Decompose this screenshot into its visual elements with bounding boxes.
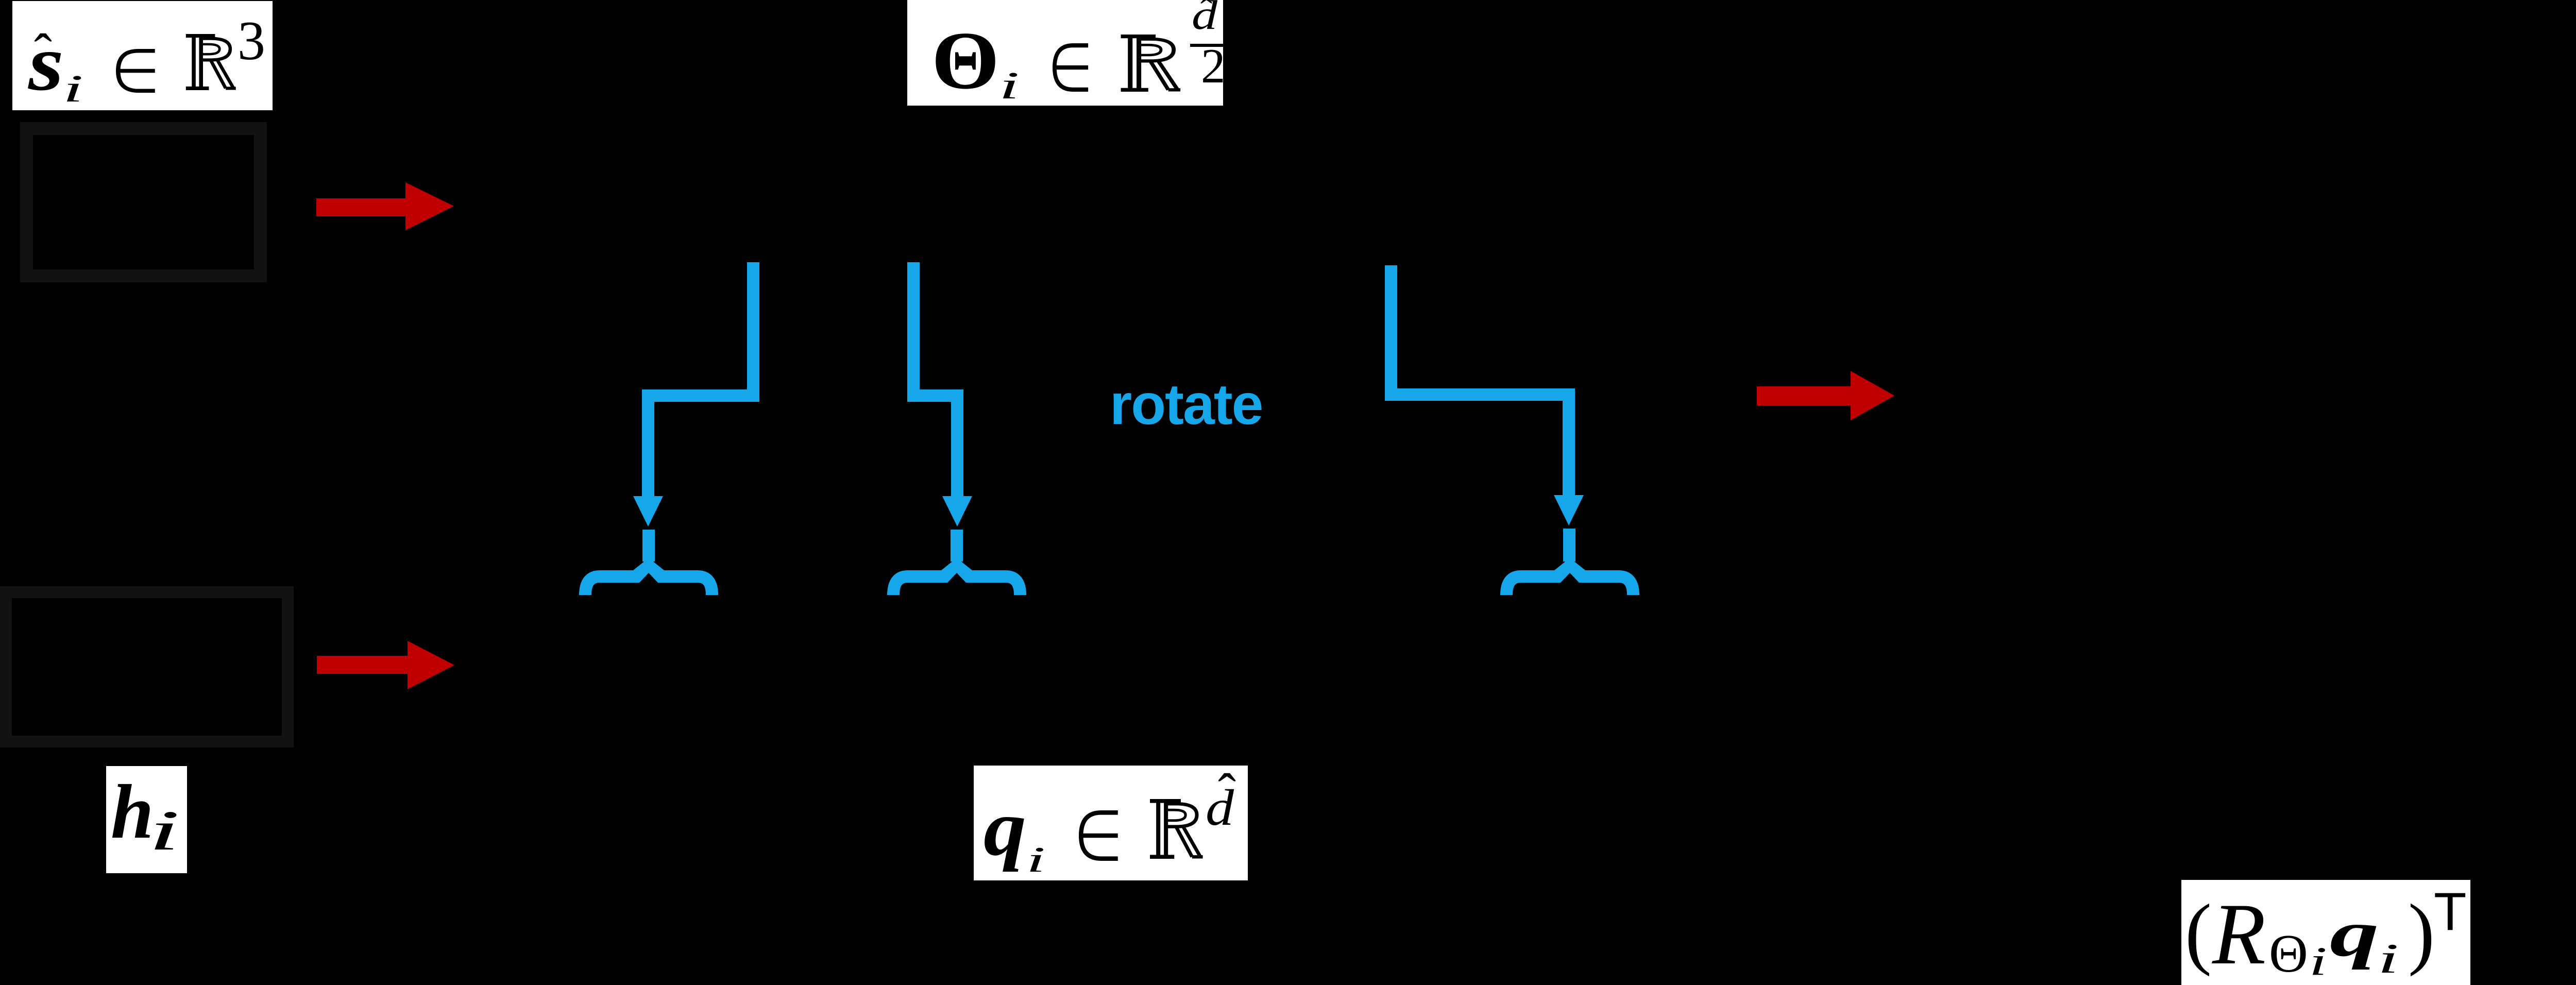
brace 2: [893, 576, 1020, 595]
red arrow 2 (middle right): [1757, 371, 1894, 420]
label box (R_Theta_i q_i)^T: [2181, 880, 2470, 985]
label box h_i: [106, 766, 187, 873]
black box 2 (bottom-left rectangle): [0, 586, 294, 748]
defs for math glyphs drawn as paths: [0, 0, 3, 3]
blue connector 2: [913, 262, 957, 562]
rotate label: [1110, 376, 1262, 433]
brace 1: [585, 576, 712, 595]
blue connector 3: [1391, 265, 1569, 562]
blue connector 1: [648, 262, 753, 562]
label box Theta_i (top-center): [907, 0, 1223, 106]
label box q_i in R^d: [974, 766, 1248, 880]
brace 3: [1506, 576, 1633, 595]
black box 1 (top-left rectangle): [20, 122, 267, 282]
label box s_i in R3 (top-left): [12, 1, 273, 110]
red arrow 3 (from black box 2): [317, 641, 454, 689]
red arrow 1 (from black box 1): [316, 182, 454, 230]
